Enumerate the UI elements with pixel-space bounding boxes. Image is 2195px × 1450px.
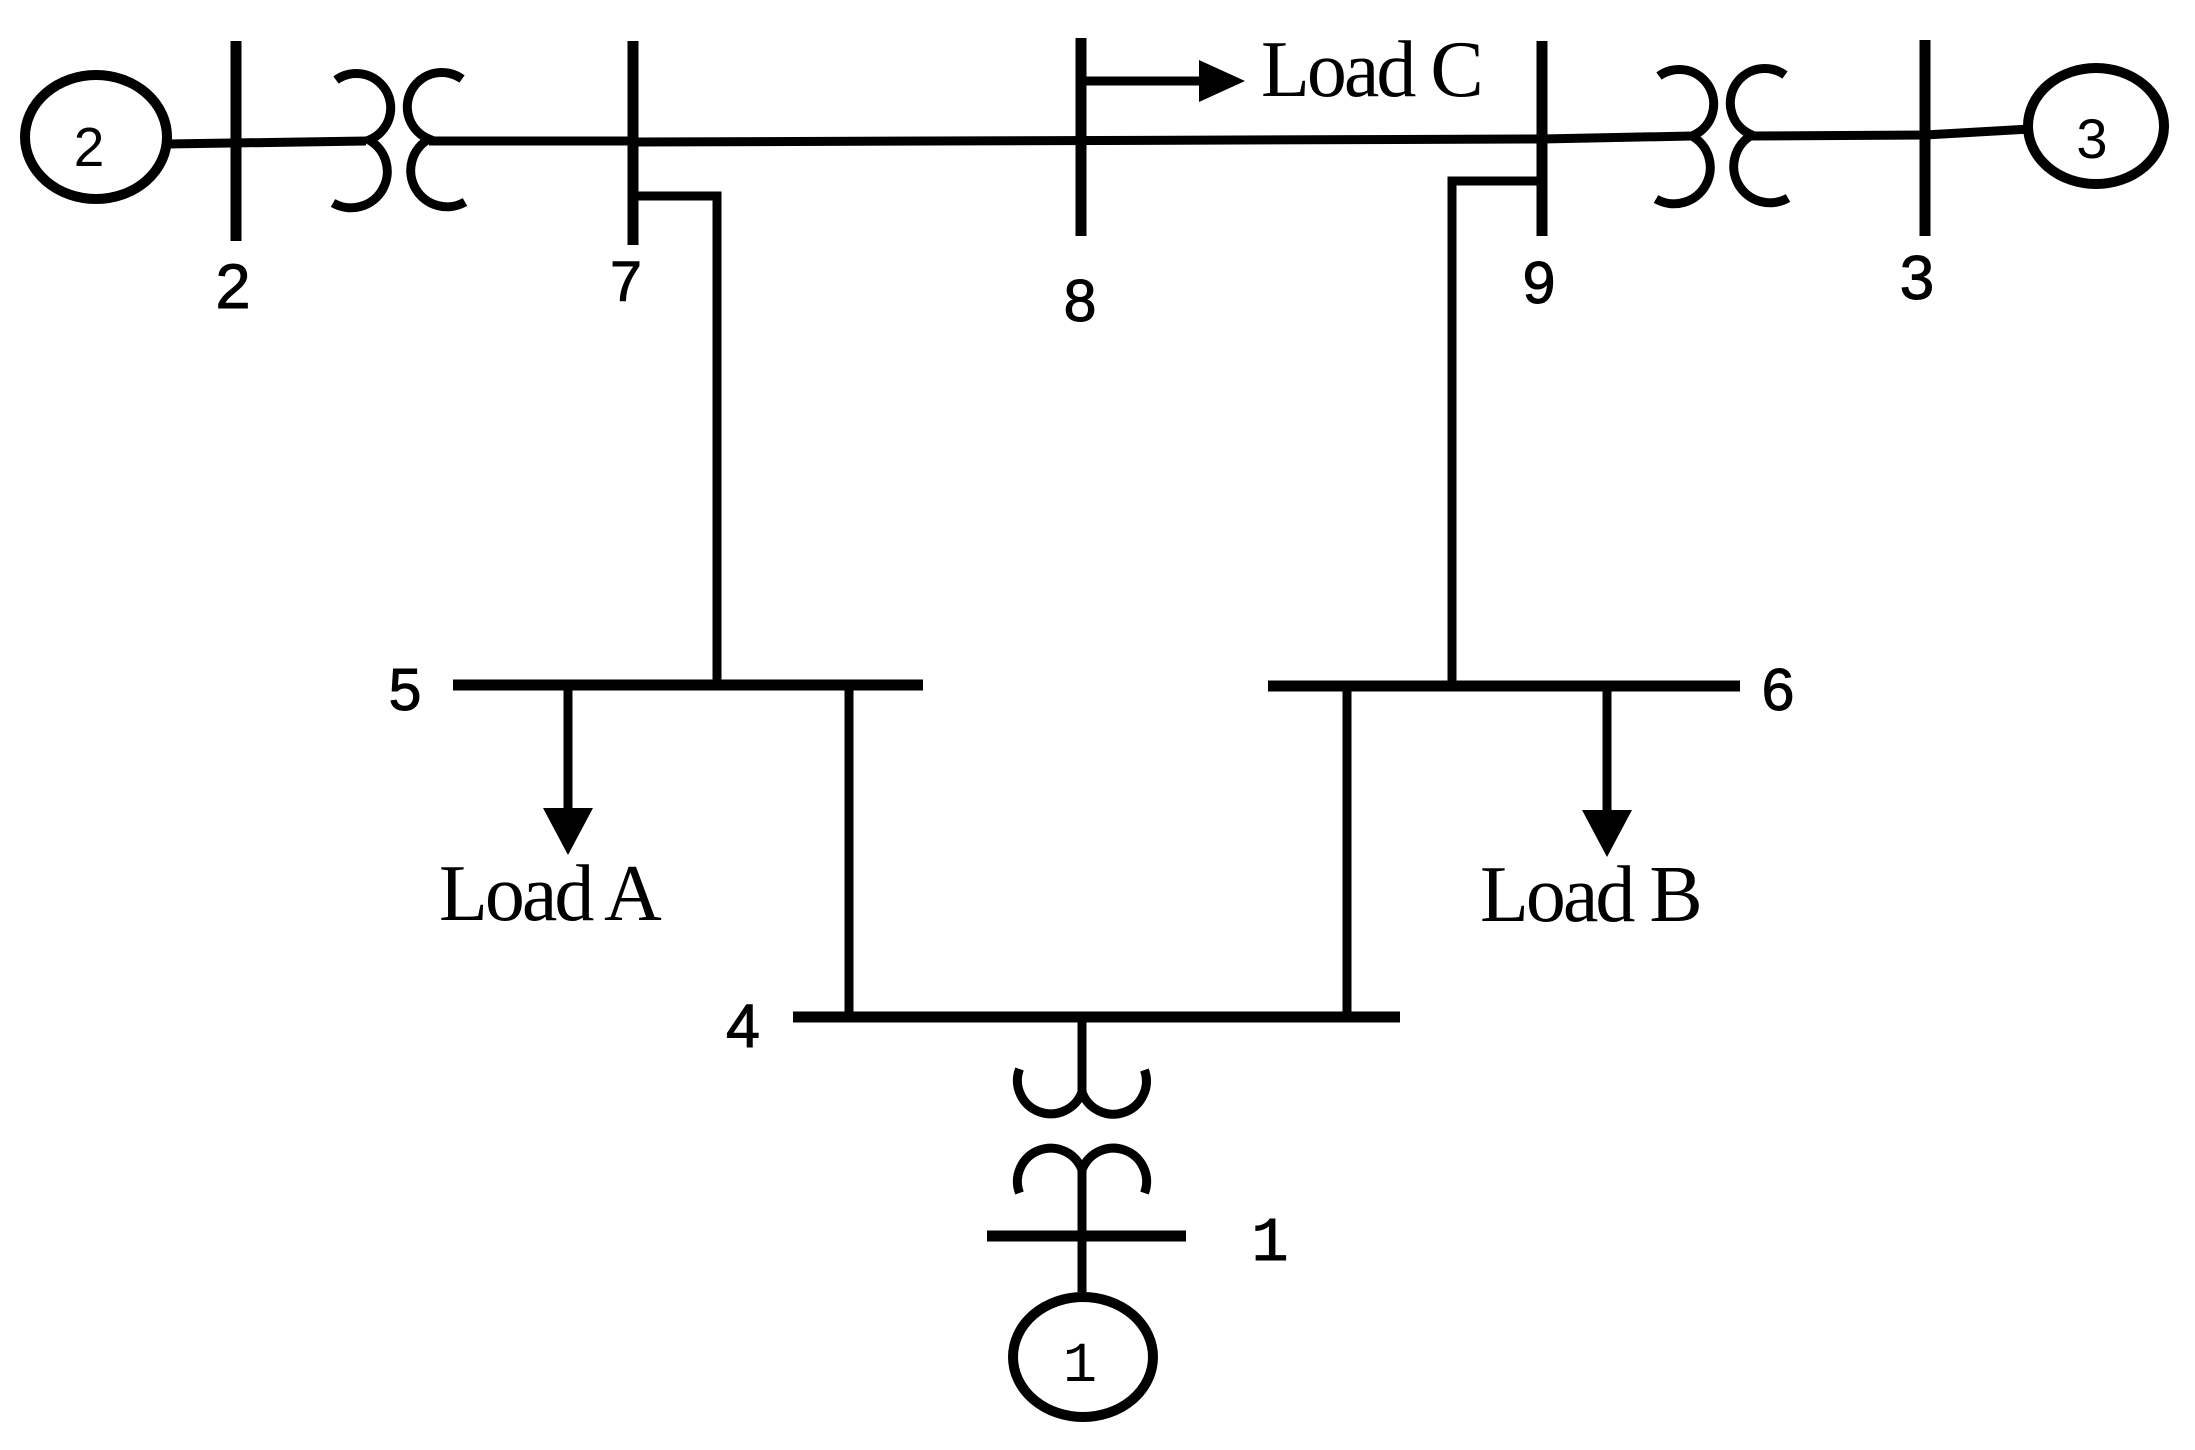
bus 5 bar bbox=[453, 680, 923, 691]
bus 8 bar bbox=[1076, 38, 1087, 236]
wire T93 to bus 3 bbox=[1752, 135, 1925, 136]
bus 3 bar bbox=[1920, 40, 1931, 236]
wire stub bus 9 branch bbox=[1452, 181, 1542, 686]
wire bus 5 to bus 4 bbox=[845, 685, 854, 1017]
svg-text:Load B: Load B bbox=[1480, 851, 1700, 939]
svg-text:9: 9 bbox=[1523, 250, 1556, 316]
svg-text:5: 5 bbox=[389, 657, 422, 723]
bus 7 bar bbox=[628, 41, 639, 245]
Load A arrow shaft bbox=[564, 686, 573, 812]
bus 2 bar bbox=[231, 41, 242, 241]
generator G2 circle bbox=[25, 75, 167, 199]
Load B arrow shaft bbox=[1603, 687, 1612, 814]
transformer T93 primary coil bbox=[1656, 69, 1714, 203]
svg-text:4: 4 bbox=[726, 992, 760, 1060]
transformer T93 secondary coil bbox=[1730, 68, 1788, 202]
svg-text:1: 1 bbox=[1063, 1335, 1097, 1399]
svg-text:6: 6 bbox=[1762, 657, 1795, 723]
Load C arrowhead bbox=[1199, 60, 1245, 102]
svg-text:Load C: Load C bbox=[1261, 26, 1481, 114]
Load C arrow shaft bbox=[1081, 77, 1202, 86]
svg-text:1: 1 bbox=[1251, 1208, 1288, 1279]
wire stub bus 7 branch bbox=[633, 196, 717, 685]
wire T41 to bus 1 bbox=[1078, 1170, 1087, 1292]
wire bus 6 to bus 4 bbox=[1343, 686, 1352, 1017]
transformer T41 primary coil bbox=[1017, 1069, 1146, 1114]
transformer T27 secondary coil bbox=[407, 72, 465, 206]
svg-text:Load A: Load A bbox=[439, 850, 662, 938]
generator G1 circle bbox=[1013, 1297, 1153, 1417]
wire bus 4 to transformer T41 bbox=[1078, 1017, 1087, 1092]
wire T27 to bus 7 bbox=[429, 137, 633, 146]
svg-text:2: 2 bbox=[74, 116, 105, 178]
svg-text:8: 8 bbox=[1064, 268, 1097, 334]
Load B arrowhead bbox=[1582, 810, 1632, 857]
wire line 7-8-9 bbox=[633, 139, 1542, 142]
svg-text:2: 2 bbox=[215, 252, 250, 322]
bus 4 bar bbox=[793, 1012, 1400, 1023]
transformer T27 primary coil bbox=[333, 73, 391, 207]
transformer T41 secondary coil bbox=[1017, 1148, 1146, 1193]
svg-text:7: 7 bbox=[610, 250, 642, 314]
bus 6 bar bbox=[1268, 681, 1740, 692]
wire G2 to bus 2 to transformer T27 bbox=[167, 141, 366, 144]
generator G3 circle bbox=[2028, 68, 2164, 184]
wire bus 3 to generator G3 bbox=[1925, 129, 2030, 135]
svg-text:3: 3 bbox=[1900, 244, 1934, 313]
svg-text:3: 3 bbox=[2076, 107, 2107, 170]
Load A arrowhead bbox=[543, 808, 593, 855]
bus 9 bar bbox=[1537, 41, 1548, 236]
wire bus 9 to transformer T93 bbox=[1542, 136, 1692, 139]
bus 1 bar bbox=[987, 1231, 1186, 1242]
